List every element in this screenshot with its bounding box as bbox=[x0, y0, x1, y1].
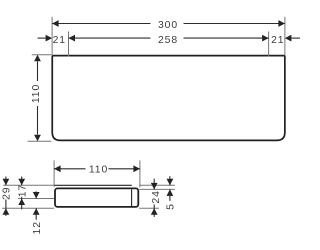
extension line left for dim 110 profile bbox=[53, 160, 55, 187]
dim 300 bbox=[52, 20, 285, 31]
svg-text:5: 5 bbox=[166, 203, 177, 210]
extension line left of dim 300 bbox=[51, 17, 53, 55]
extension line top for dim 110 front bbox=[32, 54, 52, 56]
svg-text:21: 21 bbox=[271, 35, 284, 46]
svg-text:24: 24 bbox=[151, 190, 162, 203]
extension line right of dim 300 bbox=[284, 17, 286, 55]
svg-text:258: 258 bbox=[158, 35, 178, 46]
extension line right middle of profile bbox=[139, 188, 175, 190]
svg-text:12: 12 bbox=[32, 221, 43, 234]
dim 110 front bbox=[31, 55, 42, 141]
extension line left top of profile bbox=[3, 184, 54, 186]
profile wall rail inner line bbox=[131, 189, 133, 206]
extension line bottom for dim 110 front bbox=[28, 140, 52, 142]
dim 24 bbox=[151, 179, 162, 217]
svg-text:29: 29 bbox=[2, 187, 13, 200]
dim 29 bbox=[2, 177, 13, 216]
svg-text:110: 110 bbox=[89, 165, 108, 176]
extension line left bottom of profile bbox=[2, 207, 54, 209]
dim 12 bbox=[32, 191, 43, 234]
extension line right bottom of profile bbox=[139, 207, 159, 209]
extension line right of dim 258 bbox=[268, 32, 270, 57]
extension line right for dim 110 profile bbox=[139, 160, 141, 187]
front view shelf outline bbox=[52, 56, 285, 141]
dim 258 bbox=[69, 35, 269, 46]
svg-text:110: 110 bbox=[31, 84, 42, 103]
extension line left of dim 258 bbox=[68, 32, 70, 57]
dim 17 bbox=[17, 177, 28, 210]
extension line right top of profile bbox=[139, 184, 175, 186]
profile body bbox=[55, 188, 138, 207]
svg-text:300: 300 bbox=[158, 20, 178, 31]
svg-text:21: 21 bbox=[53, 35, 66, 46]
profile plate top line bbox=[54, 184, 132, 186]
dim 21 left bbox=[38, 35, 66, 46]
dim 110 profile bbox=[54, 165, 140, 176]
dim 5 bbox=[166, 176, 177, 210]
extension line left middle of profile bbox=[18, 198, 54, 200]
svg-text:17: 17 bbox=[17, 184, 28, 197]
dim 21 right bbox=[271, 35, 300, 46]
